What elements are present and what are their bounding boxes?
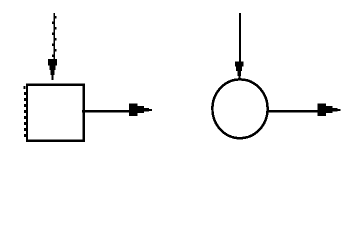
arrowhead: output arrow from square [129,103,152,115]
wire: dashed input arrow shaft into square [52,13,56,60]
wire: output from circle [268,110,318,112]
arrowhead: input arrow into square [48,59,57,80]
square left dashed edge [24,86,26,137]
arrowhead: input arrow into circle [235,62,243,79]
square block [27,85,84,141]
wire: input arrow shaft into circle [239,13,241,62]
arrowhead: output arrow from circle [317,103,340,115]
circle node [212,79,267,138]
wire: output from square [82,110,130,112]
